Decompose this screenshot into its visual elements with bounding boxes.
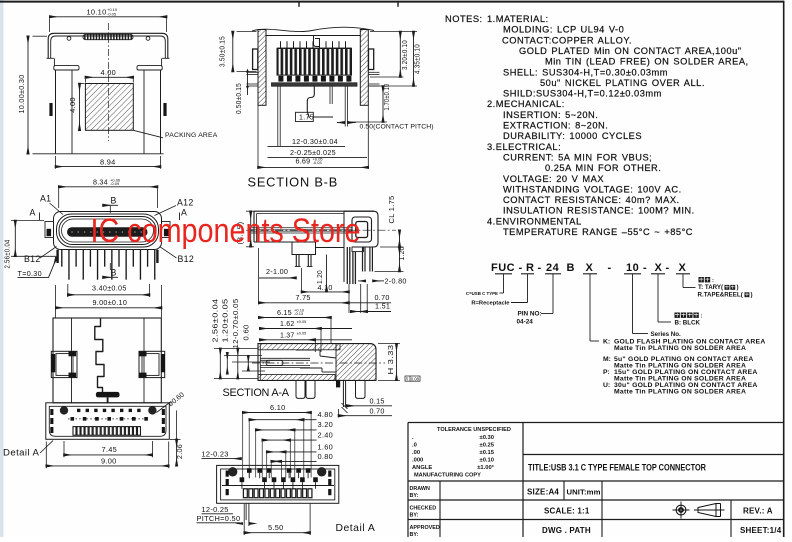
svg-text:-: - [519, 262, 523, 274]
svg-text:2.40: 2.40 [318, 430, 334, 439]
mid block + legs [292, 242, 316, 255]
svg-text:-0.05: -0.05 [107, 12, 117, 17]
contact comb block [277, 48, 352, 75]
svg-text:DWG . PATH: DWG . PATH [542, 526, 591, 535]
svg-text:1.MATERIAL:: 1.MATERIAL: [487, 14, 549, 24]
svg-text:R.TAPE&REEL(: R.TAPE&REEL( [698, 292, 744, 299]
svg-text:-: - [666, 262, 670, 274]
svg-text:10.10: 10.10 [87, 8, 107, 17]
svg-text:3.20: 3.20 [318, 420, 334, 429]
svg-text:±0.10: ±0.10 [480, 457, 494, 463]
svg-text:3.40±0.05: 3.40±0.05 [92, 283, 127, 292]
svg-text:12-0.70±0.05: 12-0.70±0.05 [233, 299, 240, 349]
svg-text:0.08: 0.08 [411, 376, 420, 381]
pin feet row [278, 76, 283, 82]
front view tongue (dark) [67, 227, 148, 237]
svg-text:8.94: 8.94 [100, 157, 116, 166]
svg-text:IC components Store: IC components Store [91, 212, 361, 250]
svg-text:A: A [30, 208, 36, 218]
svg-text:SIZE:A4: SIZE:A4 [527, 488, 559, 497]
svg-text:1.75: 1.75 [299, 115, 314, 122]
svg-text:TEMPERATURE RANGE –55°C ~ +85°: TEMPERATURE RANGE –55°C ~ +85°C [503, 227, 693, 237]
svg-text:NOTES:: NOTES: [445, 14, 483, 24]
rear view shell outline [48, 33, 168, 58]
svg-text:APPROVED: APPROVED [410, 525, 440, 531]
svg-text:CONTACT RESISTANCE: 40m? MAX.: CONTACT RESISTANCE: 40m? MAX. [503, 195, 680, 205]
svg-text:Series No.: Series No. [651, 331, 682, 338]
right SMT block [344, 211, 378, 247]
svg-text:3.20±0.10: 3.20±0.10 [400, 40, 409, 70]
third angle projection symbol [676, 505, 686, 515]
svg-text:MOLDING: LCP UL94 V-0: MOLDING: LCP UL94 V-0 [503, 25, 624, 35]
left latch [51, 351, 77, 377]
svg-text:PACKING AREA: PACKING AREA [165, 132, 218, 139]
svg-text:.000: .000 [412, 457, 423, 463]
svg-text:R: R [526, 262, 534, 274]
svg-text:2-1.00: 2-1.00 [266, 267, 288, 276]
svg-text:SHEET:1/4: SHEET:1/4 [740, 526, 782, 535]
svg-text:2.MECHANICAL:: 2.MECHANICAL: [487, 99, 565, 109]
svg-text:±0.05: ±0.05 [297, 331, 307, 335]
svg-text:): ) [751, 292, 753, 299]
svg-text:CHECKED: CHECKED [410, 506, 437, 512]
svg-text:2.56±0.04: 2.56±0.04 [3, 240, 12, 269]
frame tick mark 2 [397, 2, 399, 6]
svg-text:9.00: 9.00 [101, 456, 117, 465]
svg-text:SHILD:SUS304-H,T=0.12±0.03mm: SHILD:SUS304-H,T=0.12±0.03mm [503, 89, 662, 99]
svg-text:04-24: 04-24 [517, 318, 534, 325]
svg-text:U:: U: [603, 382, 610, 389]
svg-text:-0.03: -0.03 [313, 160, 323, 165]
svg-text:CONTACT:COPPER ALLOY.: CONTACT:COPPER ALLOY. [502, 35, 632, 45]
svg-text:INSULATION RESISTANCE: 100M? M: INSULATION RESISTANCE: 100M? MIN. [503, 206, 695, 216]
svg-text:): ) [737, 284, 739, 291]
svg-text::: : [701, 313, 703, 319]
svg-text:B: BLCK: B: BLCK [675, 320, 701, 327]
svg-text:10.00±0.30: 10.00±0.30 [17, 75, 26, 114]
pad row 2 [240, 477, 245, 482]
section B-B right shell wall (hatched) [360, 30, 368, 106]
svg-text:1.51: 1.51 [375, 302, 390, 311]
svg-text:3.50±0.15: 3.50±0.15 [218, 36, 227, 67]
label color B: BLCK [675, 313, 680, 318]
svg-text:7.75: 7.75 [296, 293, 311, 302]
svg-text:4.80: 4.80 [318, 410, 334, 419]
svg-text:-0.13: -0.13 [294, 311, 304, 316]
svg-text:DURABILITY: 10000 CYCLES: DURABILITY: 10000 CYCLES [503, 131, 642, 141]
right latch [139, 351, 165, 377]
dia 0.60 label [157, 402, 172, 413]
svg-text:FUC: FUC [491, 262, 515, 274]
svg-text:0.25A MIN FOR OTHER.: 0.25A MIN FOR OTHER. [545, 163, 661, 173]
mount circles [228, 467, 237, 476]
svg-text:0.70: 0.70 [370, 406, 385, 415]
svg-text:R=Receptacle: R=Receptacle [471, 301, 510, 307]
svg-text:Detail A: Detail A [3, 448, 39, 459]
center line [108, 23, 110, 141]
right hatched mass [336, 344, 376, 381]
svg-text:X: X [586, 262, 594, 274]
svg-text:SECTION B-B: SECTION B-B [248, 175, 339, 190]
svg-text:WITHSTANDING VOLTAGE: 100V AC.: WITHSTANDING VOLTAGE: 100V AC. [503, 184, 682, 194]
svg-text:24: 24 [546, 262, 560, 274]
extension legs below body [277, 86, 279, 146]
svg-text:X: X [655, 262, 663, 274]
paddle handle [96, 392, 120, 398]
top view body [53, 318, 161, 403]
svg-text:.00: .00 [412, 450, 420, 456]
frame tick mark 1 [298, 2, 300, 6]
svg-text:PITCH=0.50: PITCH=0.50 [197, 514, 241, 523]
front view shell nested outlines [54, 212, 162, 250]
svg-text:A1: A1 [40, 194, 51, 204]
svg-text:6.69: 6.69 [296, 157, 311, 166]
svg-text:P:: P: [603, 369, 610, 376]
legs below right block [346, 247, 348, 284]
svg-text:SECTION A-A: SECTION A-A [223, 387, 290, 399]
footprint block [46, 403, 170, 440]
svg-text:UNIT:mm: UNIT:mm [567, 488, 601, 497]
svg-text:7.45: 7.45 [102, 445, 118, 454]
rear view solder tabs (black) [49, 103, 52, 116]
svg-text:10: 10 [626, 262, 639, 274]
svg-text:0.15: 0.15 [370, 396, 385, 405]
svg-text:SCALE: 1:1: SCALE: 1:1 [544, 507, 590, 516]
pad stems [248, 473, 250, 478]
drop lines [503, 274, 505, 293]
svg-text:GOLD PLATED Min ON CONTACT ARE: GOLD PLATED Min ON CONTACT AREA,100u" [519, 46, 742, 56]
bottom comb [73, 427, 76, 436]
bottom strip hatch [258, 374, 335, 380]
svg-text:±0.05: ±0.05 [297, 320, 307, 324]
tongue contact lines [251, 226, 352, 228]
top strip hatch [258, 344, 340, 350]
svg-text:0.50(CONTACT PITCH): 0.50(CONTACT PITCH) [360, 123, 434, 130]
side view body [254, 210, 374, 212]
code underbars [495, 273, 512, 275]
svg-text:H 3.33: H 3.33 [388, 345, 395, 375]
drawing frame right border [783, 1, 785, 537]
svg-text:TITLE:USB 3.1 C TYPE FEMALE TO: TITLE:USB 3.1 C TYPE FEMALE TOP CONNECTO… [528, 463, 706, 473]
dim 0.50 contact pitch [337, 122, 345, 124]
svg-text:Min TIN (LEAD FREE) ON SOLDER: Min TIN (LEAD FREE) ON SOLDER AREA, [545, 57, 749, 67]
side tabs [253, 49, 258, 70]
inner horizontal line [222, 485, 334, 487]
svg-text:4.10: 4.10 [318, 283, 333, 292]
edge marks [226, 471, 229, 477]
svg-text:3.ELECTRICAL:: 3.ELECTRICAL: [487, 142, 561, 152]
packing area hatched square [85, 84, 133, 131]
svg-text:MANUFACTURING COPY: MANUFACTURING COPY [414, 472, 481, 478]
drawing frame top border [0, 1, 784, 3]
svg-text:±0.25: ±0.25 [480, 443, 495, 449]
svg-text:9.00±0.10: 9.00±0.10 [93, 298, 128, 307]
svg-text:BY:: BY: [410, 513, 419, 519]
svg-text:A12: A12 [177, 198, 194, 208]
comb row [243, 489, 247, 498]
svg-text:B: B [111, 196, 117, 206]
svg-text:4.ENVIRONMENTAL: 4.ENVIRONMENTAL [487, 216, 582, 226]
label packing [699, 277, 704, 282]
svg-text:12-0.23: 12-0.23 [202, 449, 229, 458]
dotted row [68, 418, 148, 420]
svg-text:CL 1.75: CL 1.75 [389, 196, 396, 224]
svg-text:-: - [643, 262, 647, 274]
pad row 1 [247, 468, 252, 473]
upper pin row [280, 41, 282, 48]
side mount tabs [45, 222, 54, 238]
svg-text:±0.30: ±0.30 [480, 435, 494, 441]
svg-text:TOLERANCE UNSPECIFIED: TOLERANCE UNSPECIFIED [437, 427, 511, 433]
detail A block [217, 465, 339, 503]
section B-B left shell wall (hatched) [258, 30, 266, 106]
svg-text:0.50±0.15: 0.50±0.15 [234, 83, 243, 114]
center hook detail [314, 36, 320, 47]
svg-text:1.20±0.05: 1.20±0.05 [223, 299, 230, 343]
svg-text:VOLTAGE: 20 V MAX: VOLTAGE: 20 V MAX [503, 174, 604, 184]
svg-text:1.62: 1.62 [280, 321, 294, 328]
svg-text::: : [712, 278, 714, 284]
svg-text:±0.15: ±0.15 [480, 450, 495, 456]
edge pads [50, 409, 53, 415]
svg-text:BY:: BY: [410, 532, 419, 537]
parallelism feature frame [405, 376, 420, 381]
inner top edge [266, 35, 360, 37]
svg-text:ANGLE: ANGLE [412, 465, 432, 471]
legs [296, 380, 305, 398]
svg-text:5.50: 5.50 [268, 523, 284, 532]
svg-text:CURRENT: 5A MIN FOR VBUS;: CURRENT: 5A MIN FOR VBUS; [503, 153, 652, 163]
svg-text:T: TARY(: T: TARY( [698, 284, 724, 291]
scan left edge strip [0, 0, 3, 537]
rear view rivet circles [67, 37, 71, 41]
bottom plate [272, 83, 358, 86]
svg-text:12-0.30±0.04: 12-0.30±0.04 [292, 137, 338, 146]
cone symbol [698, 504, 716, 517]
svg-text:C=USB C TYPE: C=USB C TYPE [466, 291, 498, 296]
flange lines left [247, 71, 259, 73]
svg-text:2.56±0.04: 2.56±0.04 [213, 299, 220, 343]
svg-text:PIN NO:: PIN NO: [518, 310, 542, 317]
svg-text:6.15: 6.15 [277, 308, 292, 317]
extension verticals [242, 414, 244, 478]
svg-text:B: B [111, 268, 117, 278]
rear view PCB baseline [33, 153, 164, 155]
svg-text:Matte Tin PLATING ON SOLDER AR: Matte Tin PLATING ON SOLDER AREA [614, 388, 746, 395]
svg-text:.0: .0 [412, 443, 417, 449]
center leg wiggle [307, 86, 314, 118]
svg-text:12-0.25: 12-0.25 [202, 505, 229, 514]
svg-text:6.10: 6.10 [270, 403, 286, 412]
svg-text:DRAWN: DRAWN [410, 486, 430, 492]
svg-text:EXTRACTION: 8~20N.: EXTRACTION: 8~20N. [503, 121, 608, 131]
svg-text:REV.: A: REV.: A [743, 507, 773, 516]
svg-text:B: B [567, 262, 575, 274]
svg-text:50u" NICKEL PLATING OVER ALL.: 50u" NICKEL PLATING OVER ALL. [540, 78, 705, 88]
svg-text:8.34: 8.34 [93, 178, 108, 187]
svg-text:0.80: 0.80 [318, 452, 334, 461]
front view pin comb [61, 250, 63, 267]
svg-text:4.00: 4.00 [68, 97, 77, 113]
small pad row [77, 409, 80, 412]
rear view side flanges [54, 66, 79, 70]
tongue lines [260, 357, 310, 359]
rear view lower body walls [55, 70, 57, 154]
break line top [252, 27, 374, 31]
svg-text:1.70±0.10: 1.70±0.10 [382, 84, 391, 111]
svg-text:1.37: 1.37 [280, 333, 294, 340]
mount hole circles [60, 406, 68, 414]
svg-text:BY:: BY: [410, 493, 419, 499]
svg-text:2-0.80: 2-0.80 [385, 276, 407, 285]
svg-text:0.60: 0.60 [244, 325, 251, 341]
weld seam zigzag [95, 318, 104, 392]
svg-text:B12: B12 [178, 254, 195, 264]
svg-text:-: - [608, 262, 612, 274]
svg-text:M:: M: [603, 356, 611, 363]
rear view contact strip [83, 34, 133, 39]
svg-text:X: X [679, 262, 687, 274]
dim 1.75 boxed [296, 112, 314, 121]
svg-text:K:: K: [603, 339, 610, 346]
svg-text:B12: B12 [24, 254, 41, 264]
svg-text:-: - [538, 262, 542, 274]
svg-text:SHELL: SUS304-H,T=0.30±0.03mm: SHELL: SUS304-H,T=0.30±0.03mm [503, 67, 668, 77]
section A-A body [258, 344, 376, 381]
svg-text:T=0.30: T=0.30 [18, 269, 42, 278]
title block grid [408, 422, 784, 424]
svg-text:1.60: 1.60 [318, 442, 334, 451]
svg-text:Detail A: Detail A [336, 523, 376, 534]
svg-text:-0.09: -0.09 [110, 181, 120, 186]
svg-text:4.00: 4.00 [101, 68, 117, 77]
step lines [296, 349, 320, 351]
svg-text:Matte Tin PLATING ON SOLDER AR: Matte Tin PLATING ON SOLDER AREA [614, 345, 746, 352]
svg-text:±1.00°: ±1.00° [477, 465, 494, 471]
svg-text:INSERTION: 5~20N.: INSERTION: 5~20N. [503, 110, 598, 120]
PACKING AREA label [133, 130, 163, 138]
